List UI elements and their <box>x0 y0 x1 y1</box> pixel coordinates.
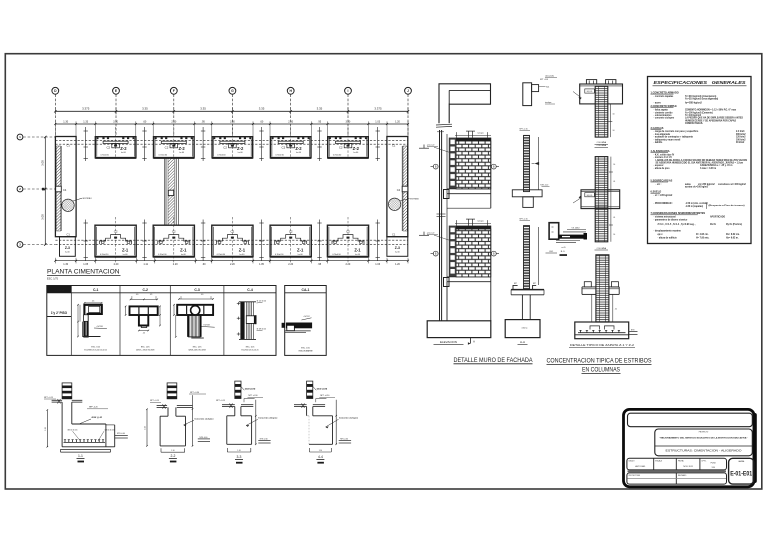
spec text: albanileria <box>651 150 748 170</box>
svg-text:Ldesarrollo: Ldesarrollo <box>545 76 554 78</box>
svg-text:H= 7.95 mts.: H= 7.95 mts. <box>696 236 710 239</box>
svg-text:DETALLE MURO DE FACHADA: DETALLE MURO DE FACHADA <box>454 357 534 364</box>
facade wall lower: hooks above <box>455 219 491 226</box>
svg-text:- altura de edificio: - altura de edificio <box>658 236 678 239</box>
svg-text:- acero: - acero <box>654 101 662 104</box>
section detail 4-4 <box>294 381 359 463</box>
svg-text:NTN -0.60: NTN -0.60 <box>260 438 268 440</box>
svg-text:V.S. 4Ø1/2: V.S. 4Ø1/2 <box>572 227 580 229</box>
svg-text:ESTRUCTURAS: CIMENTACION - ALI: ESTRUCTURAS: CIMENTACION - ALIGERADO <box>666 450 742 453</box>
spec text: cargas <box>651 127 747 144</box>
svg-text:4 Ø 5/8: 4 Ø 5/8 <box>97 326 103 328</box>
svg-text:ESTRIBO: ESTRIBO <box>410 199 419 201</box>
footing Z-2 axis F row 1 <box>154 127 195 158</box>
svg-text:ESC. 1/25: ESC. 1/25 <box>193 347 202 349</box>
svg-text:- carga de concreto con peso y: - carga de concreto con peso y especific… <box>654 130 699 133</box>
svg-text:.25: .25 <box>142 333 145 335</box>
svg-text:3.35: 3.35 <box>142 107 148 111</box>
svg-text:2.30: 2.30 <box>288 120 293 123</box>
title block: sheet number box <box>729 458 754 484</box>
left vertical dimension line <box>41 136 47 246</box>
svg-text:Ø1/4 @3/4: Ø1/4 @3/4 <box>245 387 256 390</box>
facade wall upper: brick masonry panel <box>456 141 491 189</box>
svg-text:NPT: NPT <box>533 283 536 285</box>
svg-text:ESC. 1/25: ESC. 1/25 <box>301 348 310 350</box>
svg-text:C-4: C-4 <box>247 288 253 292</box>
svg-text:3.35: 3.35 <box>200 107 206 111</box>
svg-text:- tabiqueria y muro movil: - tabiqueria y muro movil <box>654 138 681 141</box>
svg-text:C1: C1 <box>392 232 396 236</box>
svg-text:NTN -0.60: NTN -0.60 <box>117 433 125 435</box>
grid bubbles top (D..J) <box>52 87 59 136</box>
svg-text:1.03: 1.03 <box>375 120 380 123</box>
svg-text:3.375: 3.375 <box>82 107 90 111</box>
svg-text:- falsa zapata: - falsa zapata <box>654 109 669 112</box>
svg-text:AUTOCAD: AUTOCAD <box>635 465 645 468</box>
svg-text:Rx=8.: Rx=8. <box>710 224 716 226</box>
svg-text:h=.60: h=.60 <box>355 254 360 256</box>
svg-text:2: 2 <box>19 187 21 191</box>
svg-text:1.03: 1.03 <box>375 263 380 266</box>
section detail 3-3 <box>216 381 278 463</box>
svg-text:.50: .50 <box>615 309 617 311</box>
svg-text:Concreto ciclopeo: Concreto ciclopeo <box>195 417 215 420</box>
svg-text:Z-1: Z-1 <box>354 248 361 253</box>
section A-A upper: top beam <box>523 79 550 106</box>
footing Z-1 axis F row 3 <box>153 217 194 263</box>
svg-text:-1.50 m (cim. corrido): -1.50 m (cim. corrido) <box>685 202 708 205</box>
section A-A upper: footing band <box>512 184 549 207</box>
svg-text:traslape: traslape <box>545 101 551 104</box>
svg-text:LA PIEDRA QUE HA DE EMPLEARSE: LA PIEDRA QUE HA DE EMPLEARSE DEBERA ANT… <box>685 117 743 120</box>
column schedule table <box>47 286 276 356</box>
title block outer frame <box>624 409 755 486</box>
svg-text:f'c=100 kg/cm2 (Cemento): f'c=100 kg/cm2 (Cemento) <box>685 111 713 114</box>
svg-text:h=.60: h=.60 <box>395 252 400 254</box>
svg-text:ESC. 1/25: ESC. 1/25 <box>141 347 150 349</box>
svg-text:.95: .95 <box>201 120 205 123</box>
svg-text:0.70x0.90: 0.70x0.90 <box>217 254 225 256</box>
section detail 2-2 <box>145 383 215 463</box>
svg-text:1'y 2' PISO: 1'y 2' PISO <box>51 311 68 315</box>
footing Z-3 right <box>387 237 408 257</box>
svg-text:ESC. 1/25: ESC. 1/25 <box>91 347 100 349</box>
svg-text:- acabado de contrapiso + tabi: - acabado de contrapiso + tabiqueria <box>654 136 694 139</box>
svg-text:0.70x0.60: 0.70x0.60 <box>100 154 108 156</box>
svg-text:NPT +0.15: NPT +0.15 <box>216 400 225 402</box>
svg-text:tarrajeo: tarrajeo <box>478 132 484 135</box>
sobrecimiento corner detail <box>546 223 588 256</box>
svg-text:corredores s/c=400 kg/m2: corredores s/c=400 kg/m2 <box>718 183 746 186</box>
title block: gray divider band <box>628 470 727 472</box>
svg-text:1.50: 1.50 <box>145 426 147 430</box>
svg-text:30 k/m2: 30 k/m2 <box>736 142 745 144</box>
footing Z-2 axis I row 1 <box>328 127 369 158</box>
svg-text:1.20: 1.20 <box>395 263 400 266</box>
left bearing wall with column C1/C4 <box>55 137 76 237</box>
svg-text:Ø 1/2 @.20: Ø 1/2 @.20 <box>257 301 266 303</box>
svg-text:“MEJORAMIENTO DEL SERVICIO EDU: “MEJORAMIENTO DEL SERVICIO EDUCATIVO DE … <box>660 437 748 440</box>
svg-text:junta e=1": junta e=1" <box>426 144 435 147</box>
svg-text:2.20: 2.20 <box>345 263 350 266</box>
caption CONCENTRACION TIPICA DE ESTRIBOS EN COLUMNAS <box>547 358 652 374</box>
svg-text:.50: .50 <box>613 234 615 236</box>
svg-text:0.70x0.60: 0.70x0.60 <box>159 154 167 156</box>
svg-text:APORTICADO: APORTICADO <box>710 216 725 219</box>
spec text: sobrecargas <box>651 179 747 188</box>
section detail 1-1 <box>44 383 128 463</box>
column section C-4 <box>237 301 266 352</box>
svg-text:ESC. 1/75: ESC. 1/75 <box>47 277 59 280</box>
svg-text:Ø3/8 @.20: Ø3/8 @.20 <box>92 417 103 419</box>
svg-text:3.35: 3.35 <box>317 107 323 111</box>
svg-text:.05: .05 <box>613 181 615 183</box>
facade wall upper: base lines <box>444 138 491 209</box>
svg-text:3.00: 3.00 <box>41 160 45 166</box>
svg-text:1.10: 1.10 <box>319 450 322 452</box>
footing Z-3 left <box>60 237 76 257</box>
svg-text:h=.60: h=.60 <box>240 254 245 256</box>
svg-text:NTN -0.60: NTN -0.60 <box>340 438 348 440</box>
svg-text:C2: C2 <box>282 146 286 150</box>
svg-text:NPT +3.05: NPT +3.05 <box>540 79 548 81</box>
svg-text:1.10: 1.10 <box>237 450 240 452</box>
spec text: consideraciones sismorresistentes <box>651 212 743 239</box>
svg-text:DIBUJO: DIBUJO <box>629 460 636 462</box>
footing Z-1 axis I row 3 <box>327 217 368 263</box>
svg-text:.45: .45 <box>150 294 153 296</box>
svg-text:h=.60: h=.60 <box>65 252 70 254</box>
svg-text:.60: .60 <box>143 120 147 123</box>
svg-text:ELEVACION: ELEVACION <box>440 340 457 344</box>
spec text: suelos <box>651 191 746 209</box>
svg-text:h=.60: h=.60 <box>296 152 301 154</box>
svg-text:NPT +0.90: NPT +0.90 <box>190 392 199 394</box>
svg-text:2.20: 2.20 <box>288 263 293 266</box>
svg-text:NFP -0.20: NFP -0.20 <box>89 407 98 409</box>
svg-text:- cimiento corrido: - cimiento corrido <box>654 111 674 114</box>
svg-text:E@.05: E@.05 <box>587 91 593 93</box>
footing Z-2 axis H row 1 <box>270 127 311 158</box>
svg-text:ESC. 1/25: ESC. 1/25 <box>246 347 255 349</box>
schedule table first column divider <box>47 316 72 318</box>
svg-text:Est.Ø3/8:1@.05,4@.10,r@.25: Est.Ø3/8:1@.05,4@.10,r@.25 <box>84 349 107 352</box>
svg-text:2.20: 2.20 <box>114 263 119 266</box>
svg-text:F: F <box>173 89 175 93</box>
axis dashed lines row 1 <box>55 139 407 141</box>
svg-text:h=.60: h=.60 <box>238 152 243 154</box>
svg-text:3.30: 3.30 <box>230 120 235 123</box>
svg-text:.45: .45 <box>92 301 95 303</box>
wall detail bubble left <box>62 198 92 212</box>
svg-text:0.70x0.90: 0.70x0.90 <box>332 254 340 256</box>
svg-text:Z-2: Z-2 <box>120 146 127 151</box>
footing Z-1 axis H row 3 <box>270 217 311 263</box>
axis dashed lines row 3 <box>55 239 407 241</box>
svg-text:(Respecto a Piso de terreno): (Respecto a Piso de terreno) <box>709 204 746 207</box>
svg-text:8 Ø 5/8: 8 Ø 5/8 <box>204 325 210 327</box>
svg-text:C-2: C-2 <box>142 288 148 292</box>
svg-text:0.70x0.90: 0.70x0.90 <box>158 254 166 256</box>
svg-text:NPT: NPT <box>514 283 517 285</box>
spec text: concreto simple <box>651 105 744 125</box>
dimension line bottom of plan <box>54 258 409 266</box>
section bubbles B lower wall <box>431 251 500 256</box>
svg-text:- mortero C:A 1:5: - mortero C:A 1:5 <box>654 156 673 159</box>
facade wall lower: base lines down to footing <box>444 226 491 321</box>
svg-text:C-1: C-1 <box>93 288 99 292</box>
svg-text:ESPECIFICACIONES GENERALES: ESPECIFICACIONES GENERALES <box>654 80 747 85</box>
svg-text:PLANTA CIMENTACION: PLANTA CIMENTACION <box>47 269 120 276</box>
column section C-1 <box>77 301 107 352</box>
svg-text:0.70x0.90: 0.70x0.90 <box>275 254 283 256</box>
facade wall: top corner beam <box>436 84 491 127</box>
svg-text:Z-3: Z-3 <box>65 246 70 250</box>
svg-text:- st = 1.05 kg/cm2: - st = 1.05 kg/cm2 <box>654 194 673 197</box>
facade wall upper: solid top course <box>456 138 491 141</box>
svg-text:1.30: 1.30 <box>63 263 68 266</box>
svg-text:f'c=210 kg/cm2 (losa aligerada: f'c=210 kg/cm2 (losa aligerada) <box>685 98 718 101</box>
svg-text:Ø1/2 @.16: Ø1/2 @.16 <box>105 429 116 431</box>
svg-text:- parametros de diseno sismico: - parametros de diseno sismico <box>654 218 688 221</box>
svg-text:2-2: 2-2 <box>170 454 175 458</box>
svg-text:.60: .60 <box>202 263 206 266</box>
svg-text:0.70x0.90: 0.70x0.90 <box>100 254 108 256</box>
svg-text:- sistema estructural: - sistema estructural <box>654 216 676 219</box>
svg-text:A-A: A-A <box>520 340 525 344</box>
svg-text:A: A <box>473 340 475 344</box>
svg-text:C4: C4 <box>397 188 401 192</box>
svg-text:h=.60: h=.60 <box>123 254 128 256</box>
svg-text:- K.K. solido tipo IV: - K.K. solido tipo IV <box>654 153 675 156</box>
svg-text:CEMENTO:HORMIGON = 1:12 +30% P: CEMENTO:HORMIGON = 1:12 +30% P.G. 6" max <box>685 110 737 112</box>
svg-text:1.05: 1.05 <box>83 263 88 266</box>
title block: project title box <box>655 429 753 456</box>
svg-text:6Ø5/8+2Ø1/2 Est.Ø3/8: 6Ø5/8+2Ø1/2 Est.Ø3/8 <box>188 349 205 352</box>
leader notes left of stirrup unit A <box>545 76 557 105</box>
svg-text:PROYECTO: PROYECTO <box>699 431 709 433</box>
svg-text:- sobrecimientos: - sobrecimientos <box>654 114 673 117</box>
svg-text:C1: C1 <box>67 144 71 148</box>
svg-text:2.4 t/m3: 2.4 t/m3 <box>736 130 745 133</box>
svg-text:1: 1 <box>19 135 21 139</box>
svg-text:LADRILLOS DE ARCILLA COCIDA SO: LADRILLOS DE ARCILLA COCIDA SOLIDO NO DE… <box>656 159 748 162</box>
spec text: concreto armado <box>651 91 719 104</box>
svg-text:-1.60 m (zapatas): -1.60 m (zapatas) <box>685 205 703 208</box>
svg-text:relleno: relleno <box>522 327 528 330</box>
svg-text:junta e=1": junta e=1" <box>426 232 435 235</box>
svg-text:- altura de piso: - altura de piso <box>654 167 671 170</box>
svg-text:Ry=8. (Portico): Ry=8. (Portico) <box>726 223 742 226</box>
svg-text:C2: C2 <box>165 146 169 150</box>
svg-text:azotea s/c=100 kg/m2: azotea s/c=100 kg/m2 <box>685 186 709 189</box>
svg-text:Z-2: Z-2 <box>237 146 244 151</box>
svg-text:- s/c :: - s/c : <box>656 184 662 186</box>
svg-text:VIGA DE AMARRE: VIGA DE AMARRE <box>298 350 313 353</box>
svg-text:1.33: 1.33 <box>83 120 88 123</box>
dimension line top level 1 <box>54 107 409 115</box>
svg-text:DPTO.: DPTO. <box>702 460 707 462</box>
dimension line top level 2 <box>54 120 409 136</box>
svg-text:3-3: 3-3 <box>237 455 242 459</box>
svg-text:NPT +0.15: NPT +0.15 <box>520 129 528 131</box>
facade wall upper: leader junta <box>426 144 449 153</box>
sheet border frame <box>5 54 762 489</box>
svg-text:4 Ø 1/2: 4 Ø 1/2 <box>304 316 310 318</box>
svg-text:CABEZA/SOGA e = .25 y .15 m: CABEZA/SOGA e = .25 y .15 m <box>700 164 732 167</box>
svg-text:Z-1: Z-1 <box>297 248 304 253</box>
svg-text:1.30: 1.30 <box>63 120 68 123</box>
svg-text:Z-2: Z-2 <box>178 146 185 151</box>
footing Z-1 axis G row 3 <box>212 217 253 263</box>
svg-text:- concreto ciclopeo: - concreto ciclopeo <box>654 117 675 120</box>
svg-text:COLUMNA: COLUMNA <box>597 247 607 250</box>
row bubbles left (1,2,3) <box>17 134 55 140</box>
svg-text:B.O.: B.O. <box>561 251 566 253</box>
svg-text:- PROFUNDIDAD :: - PROFUNDIDAD : <box>654 202 674 205</box>
svg-text:Z-2: Z-2 <box>353 146 360 151</box>
svg-text:Z=0.4 , U=1.5 , S=1.4 , Tp=0.9: Z=0.4 , U=1.5 , S=1.4 , Tp=0.90 seg. , <box>658 223 697 226</box>
svg-text:D= 4.95 cm.: D= 4.95 cm. <box>696 233 709 236</box>
svg-text:h=.60: h=.60 <box>179 152 184 154</box>
svg-text:1.05: 1.05 <box>259 263 264 266</box>
svg-text:G: G <box>231 89 234 93</box>
facade wall lower: solid top course <box>456 226 491 229</box>
svg-text:E-01-E01: E-01-E01 <box>730 471 752 478</box>
facade wall lower: brick masonry panel <box>456 229 491 277</box>
caption DETALLE MURO DE FACHADA <box>454 357 534 364</box>
svg-text:Concreto ciclopeo: Concreto ciclopeo <box>339 416 359 419</box>
right bearing wall with column C1/C4 <box>387 137 408 237</box>
svg-text:E@.05: E@.05 <box>587 195 593 197</box>
column section C-2 <box>125 294 161 352</box>
svg-text:.95: .95 <box>318 263 322 266</box>
svg-text:COLUMNA: COLUMNA <box>54 289 65 292</box>
svg-text:s=.05: s=.05 <box>561 247 565 249</box>
svg-text:fy=4200 kg/cm2: fy=4200 kg/cm2 <box>685 101 702 104</box>
svg-text:NPT +0.15: NPT +0.15 <box>44 397 53 399</box>
svg-text:NPT +0.90: NPT +0.90 <box>320 395 329 397</box>
svg-text:.40: .40 <box>136 294 139 296</box>
svg-text:1.20: 1.20 <box>395 120 400 123</box>
svg-text:COMPACTADAS.: COMPACTADAS. <box>685 122 703 125</box>
svg-text:Est.Ø1/4:1@.05,r@.20: Est.Ø1/4:1@.05,r@.20 <box>241 349 258 352</box>
stirrup column unit B (middle) <box>573 144 620 250</box>
axis 2 wall key squares <box>42 188 45 191</box>
section A-A upper: wall ladder <box>520 129 540 192</box>
intermediate dimension ticks between footings <box>84 127 380 261</box>
svg-text:.50: .50 <box>612 130 614 132</box>
facade wall upper: left column lines <box>437 130 447 321</box>
svg-text:NOV. 2011: NOV. 2011 <box>683 466 693 468</box>
section bubbles B upper wall <box>431 164 500 169</box>
svg-text:CA-1: CA-1 <box>302 288 310 292</box>
tick marks between wall units <box>437 214 446 217</box>
svg-text:.40: .40 <box>201 294 204 296</box>
svg-text:SE ASENTARA HUMEDECIDO EL DIA: SE ASENTARA HUMEDECIDO EL DIA ANTERIOR A… <box>656 162 744 165</box>
svg-text:NPT +0.90: NPT +0.90 <box>248 395 257 397</box>
svg-text:Dx= 6.62 cm.: Dx= 6.62 cm. <box>726 234 740 236</box>
svg-text:J: J <box>407 89 409 93</box>
especificaciones generales box <box>648 77 752 244</box>
interior wall on axis F <box>164 158 178 225</box>
svg-text:I: I <box>348 89 349 93</box>
svg-text:Hx= 6.62 m.: Hx= 6.62 m. <box>726 237 739 239</box>
svg-text:300 k/m2: 300 k/m2 <box>736 134 746 136</box>
svg-text:Ø 3/8 @.25: Ø 3/8 @.25 <box>257 328 266 330</box>
svg-text:f'c=210 kg/cm2 (cimentacion): f'c=210 kg/cm2 (cimentacion) <box>685 95 716 98</box>
title PLANTA CIMENTACION <box>47 269 121 281</box>
svg-text:HUMEDECERSE Y SE APISONARA POR: HUMEDECERSE Y SE APISONARA POR CAPAS <box>685 119 736 122</box>
wall detail bubble right <box>388 198 419 210</box>
footing Z-2 axis E row 1 <box>95 127 136 158</box>
svg-text:NPT +0.15: NPT +0.15 <box>150 400 159 402</box>
beam section CA-1 <box>282 286 327 356</box>
svg-text:h=.60: h=.60 <box>298 254 303 256</box>
svg-text:Z-1: Z-1 <box>122 248 129 253</box>
svg-text:NTN -0.20: NTN -0.20 <box>540 184 548 186</box>
svg-text:- espesor: - espesor <box>654 164 664 167</box>
svg-text:C2: C2 <box>339 146 343 150</box>
svg-text:3.35: 3.35 <box>259 107 265 111</box>
svg-text:100 k/m2: 100 k/m2 <box>736 139 746 141</box>
facade wall upper: edge column with stirrups <box>449 138 456 189</box>
svg-text:C1: C1 <box>67 232 71 236</box>
svg-text:Z-2: Z-2 <box>295 146 302 151</box>
svg-text:h=.60: h=.60 <box>353 152 358 154</box>
svg-text:- losa aligerada: - losa aligerada <box>654 133 671 136</box>
svg-text:PUNO: PUNO <box>711 463 717 465</box>
section A-A lower: footing <box>505 320 540 345</box>
svg-text:3.00: 3.00 <box>41 214 45 220</box>
svg-text:C1: C1 <box>392 144 396 148</box>
svg-text:1-1: 1-1 <box>78 454 83 458</box>
svg-text:- concreto zapatas: - concreto zapatas <box>654 95 675 98</box>
svg-text:3.30: 3.30 <box>113 120 118 123</box>
svg-text:120 k/m2: 120 k/m2 <box>736 137 746 139</box>
svg-text:Z-1: Z-1 <box>180 248 187 253</box>
svg-text:f'c=140 kg/cm2: f'c=140 kg/cm2 <box>685 114 702 117</box>
svg-text:V.A.: V.A. <box>546 86 550 89</box>
facade wall lower: edge column with stirrups <box>449 226 456 277</box>
stirrup column unit C with footing (bottom) <box>575 255 638 339</box>
facade wall lower: leader junta <box>426 232 449 241</box>
svg-text:Ø1/4 @3/4: Ø1/4 @3/4 <box>317 387 328 390</box>
svg-text:1.20: 1.20 <box>45 427 47 431</box>
svg-text:0.70x0.60: 0.70x0.60 <box>276 154 284 156</box>
title block: top strip box <box>628 413 753 427</box>
svg-text:EN COLUMNAS: EN COLUMNAS <box>582 367 620 374</box>
facade wall: elevation footing <box>427 321 491 345</box>
svg-text:eje x: eje x <box>658 234 664 236</box>
svg-text:.95: .95 <box>318 120 322 123</box>
svg-text:CONCENTRACION TIPICA DE ESTRIB: CONCENTRACION TIPICA DE ESTRIBOS <box>547 358 652 365</box>
svg-text:NTN -0.60: NTN -0.60 <box>200 437 208 439</box>
svg-text:1.11: 1.11 <box>143 263 148 266</box>
footing Z-1 axis E row 3 <box>95 217 136 263</box>
section A-A lower: wall ladder <box>520 219 539 290</box>
svg-text:COLUMNA: COLUMNA <box>597 141 607 144</box>
section cut marks right of plan <box>419 145 429 236</box>
svg-text:DETALLE TIPICO DE ZAPATA Z-1 Y: DETALLE TIPICO DE ZAPATA Z-1 Y Z-2 <box>570 344 635 347</box>
svg-text:.50: .50 <box>612 114 614 116</box>
section A-A lower: floor slab and pedestal <box>511 283 544 320</box>
svg-text:0.70x0.60: 0.70x0.60 <box>217 154 225 156</box>
svg-text:NPT +0.15: NPT +0.15 <box>520 219 528 221</box>
svg-text:h=.60: h=.60 <box>181 254 186 256</box>
stirrup column unit A (top) <box>573 80 623 145</box>
svg-text:1/50: 1/50 <box>711 467 715 469</box>
